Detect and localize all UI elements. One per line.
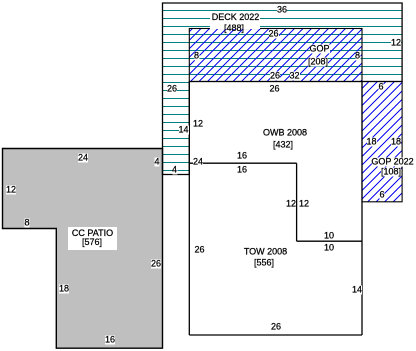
dimension 4 — [154, 157, 159, 166]
dimension 26 — [167, 85, 177, 94]
label TOW 2008 — [244, 248, 287, 257]
wire TOW/OWB left vertical x=189 — [188, 82, 190, 336]
GOP 2022 [108] hatched rect — [362, 82, 402, 202]
dimension 10 — [324, 243, 334, 252]
dimension 8 — [194, 51, 199, 60]
dimension 8 — [355, 51, 360, 60]
dimension 26 — [268, 29, 278, 38]
dimension 32 — [289, 72, 299, 81]
dimension 26 — [194, 245, 204, 254]
dimension 26 — [151, 259, 161, 268]
dimension 36 — [277, 6, 287, 15]
dimension 6 — [378, 83, 383, 92]
wire TOW bottom — [189, 334, 362, 336]
CC PATIO polygon — [3, 149, 163, 349]
dimension 12 — [6, 186, 16, 195]
dimension 6 — [379, 191, 384, 200]
dimension 18 — [366, 138, 376, 147]
wire right vertical x=362 — [361, 82, 363, 336]
label CC PATIO — [72, 228, 113, 238]
label [488] — [224, 23, 244, 33]
dimension 12 — [299, 200, 309, 209]
dimension 12 — [391, 39, 401, 48]
wire step vertical x=296 — [296, 163, 298, 241]
dimension 16 — [105, 336, 115, 345]
wire OWB/TOW split horizontal (24 line) — [189, 162, 296, 164]
dimension 4 — [172, 165, 177, 174]
dimension 14 — [178, 126, 188, 135]
label OWB 2008 — [263, 129, 307, 138]
label GOP — [309, 45, 329, 54]
deck DECK 2022 area fill — [163, 3, 403, 175]
dimension 12 — [193, 120, 203, 129]
wire step horizontal y=241 — [297, 240, 362, 242]
label [208] — [308, 58, 328, 67]
label [108] — [381, 168, 401, 177]
deck outline — [163, 3, 403, 175]
dimension 16 — [237, 152, 247, 161]
white box behind CC PATIO label — [68, 227, 117, 250]
dimension 26 — [271, 323, 281, 332]
label [576] — [82, 237, 102, 247]
dimension 16 — [237, 165, 247, 174]
dimension 24 — [193, 158, 203, 167]
dimension 8 — [24, 218, 29, 227]
dimension 18 — [391, 138, 401, 147]
dimension 18 — [59, 285, 69, 294]
label GOP 2022 — [371, 158, 413, 167]
white box behind DECK 2022 label — [210, 13, 260, 29]
dimension 10 — [324, 232, 334, 241]
dimension 12 — [286, 199, 296, 208]
dimension 26 — [270, 72, 280, 81]
label DECK 2022 — [212, 12, 260, 22]
dimension 26 — [269, 85, 279, 94]
dimension 14 — [352, 286, 362, 295]
label [432] — [273, 141, 293, 150]
dimension 24 — [78, 153, 88, 162]
label [556] — [254, 259, 274, 268]
deck teal pattern lines — [162, 11, 403, 171]
GOP [208] hatched rect — [189, 29, 362, 82]
